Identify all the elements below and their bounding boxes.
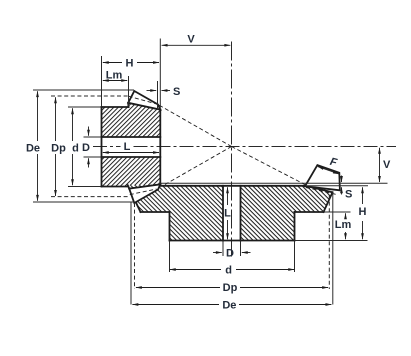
dim Dp bottom [136,287,220,289]
pinion lower hatched section [102,157,161,189]
ext gear De right vertical [332,193,334,305]
pinion front face [159,110,161,185]
pinion bottom tooth [129,184,160,203]
gear bore left wall [222,186,224,241]
ext pinion Dp bottom dashed [51,196,129,198]
pinion root line top [128,103,160,110]
gear hub right face [294,212,296,241]
pinion back face [101,107,103,187]
dim D bottom right arrow [242,252,251,254]
ext d top [68,106,101,108]
pitch line apex to pinion top [158,105,232,147]
svg-text:S: S [345,189,352,201]
dim F gear tooth [318,167,339,174]
gear right root diagonal [306,186,333,193]
pinion top tooth pitch dashes [129,96,158,104]
dim S right lower arrow [341,187,343,194]
gear hub left face [169,212,171,241]
gear left hatched section [128,185,223,240]
pitch line apex to mesh bottom-left [158,147,232,189]
dim H right [362,187,364,204]
gear left mesh/back-cone line [128,185,141,212]
dim H top [103,62,122,64]
ext D pinion bottom [84,156,102,158]
ext De top [33,89,134,91]
dim V right [379,148,381,182]
gear right hatched section [241,186,333,241]
dim Lm right [345,213,347,216]
ext gear D right vertical [240,241,242,257]
dim Lm top [103,80,127,82]
ext gear rim bottom right [324,211,351,213]
ext gear hub bottom right [295,240,368,242]
ext pinion Dp top dashed [51,95,129,97]
ext pinion front plane up [159,39,161,110]
pitch line apex to gear right [232,147,306,185]
svg-text:Lm: Lm [335,219,352,231]
svg-text:L: L [124,141,131,153]
gear right tooth [305,165,340,190]
dim De left [37,91,39,141]
dim V top [162,44,231,46]
svg-text:Lm: Lm [106,70,123,82]
dim L pinion [103,152,159,154]
gear top face [159,185,306,187]
ext D pinion top [84,136,102,138]
dim De bottom [132,304,219,306]
ext gear d left vertical [169,241,171,273]
dim d bottom [170,269,221,271]
svg-text:V: V [187,34,195,46]
gear bore right wall [240,186,242,241]
svg-text:Dp: Dp [223,282,238,294]
pinion bore bottom [102,156,161,158]
dim D bottom left arrow [213,252,222,254]
svg-text:H: H [359,206,367,218]
pinion top tooth [128,91,160,110]
ext gear d right vertical [294,241,296,273]
pinion bore top [102,136,161,138]
dim Dp left [55,97,57,141]
ext pinion back face up [101,56,103,106]
dim D left top arrow [88,127,90,136]
pinion hub top [102,106,129,108]
svg-text:D: D [82,142,90,154]
svg-text:S: S [173,86,180,98]
svg-text:H: H [126,57,134,69]
ext pinion hub corner Lm [128,76,130,106]
gear rim bottom right [295,211,324,213]
svg-text:D: D [226,248,234,260]
svg-text:L: L [224,208,231,220]
gear right back cone [324,192,333,212]
pinion bottom tooth pitch dashes [130,189,157,195]
ext gear De left vertical [130,203,132,305]
ext gear D left vertical [222,241,224,257]
svg-text:V: V [383,159,391,171]
ext gear Dp left vertical dashed [134,203,136,289]
dim L gear [227,187,229,205]
ext gear front plane right [159,182,388,184]
ext pinion tooth tip S [157,81,159,110]
ext gear Dp right vertical dashed [328,195,330,289]
svg-text:d: d [225,264,232,276]
ext d bottom [68,186,101,188]
pinion hub bottom [102,186,129,188]
dim d left [72,108,74,141]
svg-text:De: De [222,300,236,312]
svg-text:De: De [26,143,40,155]
dim S top left arrow [147,90,157,92]
svg-text:Dp: Dp [51,143,66,155]
gear right tooth pitch dashes [306,188,338,195]
svg-text:d: d [72,143,79,155]
dim S top right arrow [162,90,171,92]
ext gear top face right [306,185,368,187]
gear rim bottom left [141,211,170,213]
pinion root line bottom [129,184,160,188]
vertical axis center line [231,42,233,260]
ext De bottom [33,201,134,203]
dim D left bottom arrow [88,158,90,167]
dim S right upper arrow [341,176,343,183]
pinion back cone top segment [127,103,129,107]
gear hub bottom [170,240,295,242]
horizontal axis center line [93,146,121,148]
